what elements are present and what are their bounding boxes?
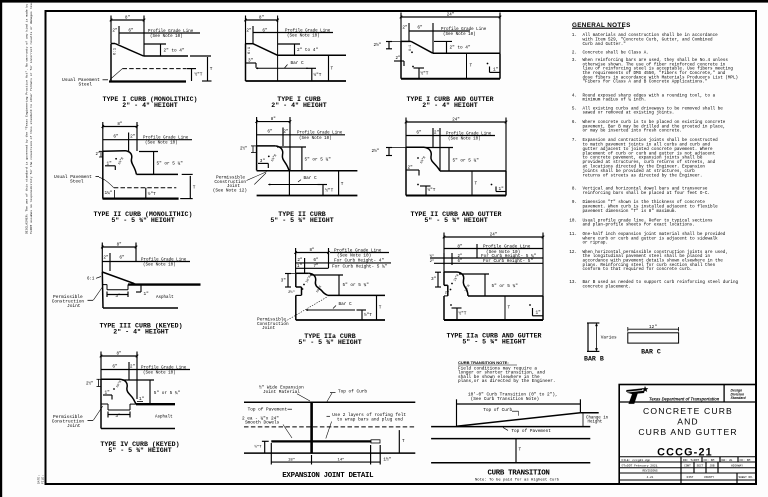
svg-text:AND: AND — [677, 417, 699, 427]
svg-text:TxDOT assumes no responsibilit: TxDOT assumes no responsibility for the … — [29, 0, 33, 234]
svg-text:Top of Pavement: Top of Pavement — [248, 408, 288, 413]
svg-text:FILE:: FILE: — [42, 475, 45, 484]
svg-text:Profile Grade Line: Profile Grade Line — [148, 29, 194, 34]
svg-text:3": 3" — [115, 414, 121, 419]
svg-text:2": 2" — [283, 130, 289, 135]
svg-text:3": 3" — [115, 294, 121, 299]
svg-text:CURB TRANSITION: CURB TRANSITION — [487, 469, 549, 477]
svg-text:6:1: 6:1 — [114, 47, 118, 55]
svg-text:2": 2" — [130, 135, 136, 140]
svg-text:Note: To be paid for as Highes: Note: To be paid for as Highest Curb — [475, 478, 560, 483]
svg-text:2" - 4" HEIGHT: 2" - 4" HEIGHT — [113, 329, 168, 336]
svg-text:9.: 9. — [572, 200, 577, 205]
svg-text:Steel: Steel — [79, 81, 93, 87]
svg-text:Top of Curb: Top of Curb — [483, 408, 512, 413]
svg-text:CONCRETE CURB: CONCRETE CURB — [643, 406, 733, 416]
svg-text:8": 8" — [125, 16, 130, 21]
TxDOT logo — [626, 386, 720, 404]
svg-text:Joint: Joint — [67, 423, 81, 429]
svg-text:2": 2" — [458, 254, 463, 259]
svg-text:T: T — [210, 67, 213, 72]
svg-text:13.: 13. — [569, 280, 577, 285]
svg-text:5" - 5 ¾" HEIGHT: 5" - 5 ¾" HEIGHT — [424, 217, 487, 224]
svg-text:5" or 5 ¾": 5" or 5 ¾" — [157, 162, 184, 167]
detail: TYPE IIa CURB AND GUTTER — [430, 233, 545, 321]
svg-text:24": 24" — [452, 118, 460, 123]
svg-text:Texas Department of Transporta: Texas Department of Transportation — [649, 397, 720, 402]
svg-text:6:1: 6:1 — [248, 46, 252, 54]
svg-text:Profile Grade Line: Profile Grade Line — [141, 257, 187, 262]
svg-text:Profile Grade Line: Profile Grade Line — [141, 365, 187, 370]
svg-text:Change in: Change in — [586, 415, 609, 420]
svg-text:2½": 2½" — [288, 290, 295, 295]
svg-text:12": 12" — [649, 325, 657, 330]
svg-text:(See Note 10): (See Note 10) — [143, 371, 176, 376]
svg-text:COUNTY: COUNTY — [704, 476, 714, 479]
svg-text:DATE:: DATE: — [38, 475, 41, 484]
svg-text:5.: 5. — [572, 106, 577, 111]
svg-text:2": 2" — [96, 152, 101, 157]
svg-text:24": 24" — [447, 13, 455, 18]
svg-text:5" or 5 ¾": 5" or 5 ¾" — [343, 283, 370, 288]
svg-text:For Curb Height- 4": For Curb Height- 4" — [334, 259, 384, 264]
svg-text:2½": 2½" — [374, 43, 382, 48]
svg-text:8": 8" — [117, 122, 122, 127]
title: TYPE I CURB (MONOLITHIC) — [103, 96, 198, 109]
svg-text:6": 6" — [416, 130, 422, 135]
svg-text:Profile Grade Line: Profile Grade Line — [441, 27, 487, 32]
svg-text:6": 6" — [267, 130, 273, 135]
svg-text:For Curb Height- 5": For Curb Height- 5" — [483, 259, 533, 264]
svg-text:5" - 5 ¾" HEIGHT: 5" - 5 ¾" HEIGHT — [462, 339, 525, 346]
svg-text:2½": 2½" — [372, 149, 380, 154]
svg-text:5" - 5 ¾" HEIGHT: 5" - 5 ¾" HEIGHT — [111, 217, 174, 224]
svg-text:½"T: ½"T — [421, 72, 429, 77]
detail: TYPE IV CURB (KEYED) — [52, 352, 190, 430]
svg-text:8": 8" — [310, 248, 315, 253]
svg-text:2": 2" — [396, 56, 401, 61]
svg-text:Bar C: Bar C — [291, 61, 305, 66]
date/file rotated text (bottom-left margin) — [38, 475, 45, 484]
svg-text:BAR C: BAR C — [641, 349, 661, 356]
svg-text:CURB AND GUTTER: CURB AND GUTTER — [638, 427, 737, 437]
svg-text:REVISIONS: REVISIONS — [642, 470, 657, 473]
svg-text:CONT: CONT — [684, 465, 691, 468]
svg-text:Curb and Gutter.": Curb and Gutter." — [583, 42, 626, 47]
disclaimer rotated text (left margin) — [25, 0, 33, 234]
svg-text:Top of Pavement: Top of Pavement — [511, 429, 551, 434]
svg-text:(See Note 10): (See Note 10) — [143, 263, 176, 268]
svg-text:2½": 2½" — [240, 147, 247, 152]
svg-text:8": 8" — [271, 117, 276, 122]
detail: TYPE III CURB (KEYED) — [52, 243, 201, 310]
general notes text — [569, 33, 738, 289]
title: TYPE III CURB (KEYED) — [99, 323, 182, 336]
svg-text:DN: TxDOT: DN: TxDOT — [683, 459, 699, 462]
general notes heading — [572, 22, 631, 29]
svg-text:©TxDOT February 2021: ©TxDOT February 2021 — [622, 464, 658, 468]
svg-text:2" to 4": 2" to 4" — [297, 48, 318, 53]
design division standard cell — [731, 389, 747, 401]
svg-text:to wrap bars and plug end: to wrap bars and plug end — [337, 417, 403, 422]
svg-text:T: T — [519, 448, 522, 453]
svg-text:T: T — [379, 306, 382, 311]
svg-text:½"T: ½"T — [314, 73, 322, 78]
svg-text:Smooth Dowels: Smooth Dowels — [245, 421, 280, 426]
svg-text:2½": 2½" — [86, 382, 93, 387]
title: TYPE IIa CURB AND GUTTER — [447, 333, 542, 346]
svg-text:conform to that required for c: conform to that required for concrete cu… — [583, 267, 693, 272]
svg-text:Profile Grade Line: Profile Grade Line — [297, 131, 343, 136]
svg-text:18": 18" — [288, 458, 295, 463]
svg-text:5" or 5 ¾": 5" or 5 ¾" — [154, 391, 181, 396]
svg-text:2": 2" — [434, 130, 440, 135]
title: TYPE I CURB AND GUTTER — [406, 96, 493, 109]
svg-text:2" - 4" HEIGHT: 2" - 4" HEIGHT — [122, 102, 177, 109]
svg-text:6:1: 6:1 — [87, 278, 95, 282]
svg-text:6:1: 6:1 — [409, 45, 413, 51]
title: CURB TRANSITION — [475, 469, 560, 482]
detail: TYPE I CURB — [244, 16, 346, 82]
svg-text:FILE: cccg21.dgn: FILE: cccg21.dgn — [622, 458, 651, 462]
svg-text:Steel: Steel — [70, 179, 84, 185]
svg-text:HIGHWAY: HIGHWAY — [731, 465, 743, 468]
svg-text:1": 1" — [493, 68, 499, 73]
svg-text:T: T — [193, 186, 196, 191]
svg-text:sawed or removed at existing j: sawed or removed at existing joints. — [583, 111, 675, 116]
svg-text:5" - 5 ¾" HEIGHT: 5" - 5 ¾" HEIGHT — [108, 447, 171, 454]
svg-text:Joint: Joint — [67, 303, 81, 309]
svg-text:2": 2" — [130, 364, 136, 369]
svg-text:1": 1" — [499, 187, 505, 192]
svg-text:T: T — [508, 306, 511, 311]
svg-text:2" - 4" HEIGHT: 2" - 4" HEIGHT — [271, 102, 326, 109]
svg-text:(See Note 10): (See Note 10) — [299, 136, 332, 141]
svg-text:3": 3" — [281, 279, 287, 284]
svg-text:For Curb Height- 5 ¾": For Curb Height- 5 ¾" — [481, 254, 537, 259]
svg-text:Joint: Joint — [262, 326, 276, 331]
title block outer frame — [619, 385, 756, 485]
detail: TYPE II CURB AND GUTTER — [372, 118, 508, 196]
svg-text:Top of Curb: Top of Curb — [338, 390, 367, 395]
svg-text:5" - 5 ¾" HEIGHT: 5" - 5 ¾" HEIGHT — [270, 217, 333, 224]
svg-text:(See Note 10): (See Note 10) — [287, 34, 320, 39]
svg-text:For Curb Height- 5 ¾": For Curb Height- 5 ¾" — [332, 264, 388, 269]
detail: BAR B — [584, 323, 617, 363]
svg-text:1.: 1. — [572, 33, 577, 38]
svg-text:Bar C: Bar C — [304, 176, 318, 181]
svg-text:T: T — [470, 64, 473, 69]
title: TYPE IIa CURB — [298, 333, 361, 346]
detail: BAR C — [628, 325, 679, 356]
title: TYPE II CURB — [270, 211, 333, 224]
svg-text:2" to 4": 2" to 4" — [164, 49, 185, 54]
svg-text:½"T: ½"T — [148, 192, 156, 197]
svg-text:(See Note 12): (See Note 12) — [213, 188, 247, 193]
svg-text:(See Note 10): (See Note 10) — [150, 34, 183, 39]
svg-text:or riprap.: or riprap. — [583, 241, 609, 246]
detail: EXPANSION JOINT DETAIL — [242, 386, 415, 465]
svg-text:½"T: ½"T — [364, 313, 372, 318]
svg-text:Asphalt: Asphalt — [155, 415, 173, 420]
svg-text:4-21: 4-21 — [647, 476, 654, 479]
svg-text:3.: 3. — [572, 58, 577, 63]
svg-text:6": 6" — [417, 25, 423, 30]
svg-text:14": 14" — [337, 458, 344, 463]
svg-text:CURB TRANSITION NOTE:: CURB TRANSITION NOTE: — [458, 360, 509, 365]
svg-text:(See Note 10): (See Note 10) — [145, 141, 178, 146]
svg-text:(See Note 10): (See Note 10) — [448, 137, 481, 142]
svg-text:Profile Grade Line: Profile Grade Line — [446, 131, 492, 136]
svg-text:1½": 1½" — [383, 458, 391, 463]
svg-text:10.: 10. — [569, 218, 577, 223]
svg-text:CK: KM: CK: KM — [704, 459, 715, 462]
svg-text:8": 8" — [259, 16, 264, 21]
svg-text:Concrete shall be Class A.: Concrete shall be Class A. — [583, 51, 649, 56]
svg-text:Joint Material: Joint Material — [263, 390, 300, 395]
svg-text:Varies: Varies — [601, 336, 617, 341]
svg-text:½"T: ½"T — [428, 188, 436, 193]
svg-text:DIST: DIST — [687, 476, 694, 479]
svg-text:1": 1" — [144, 292, 150, 297]
svg-text:SECT: SECT — [697, 465, 704, 468]
svg-text:plans,or as directed by the En: plans,or as directed by the Engineer. — [458, 379, 556, 384]
svg-text:(See Note 10): (See Note 10) — [443, 32, 476, 37]
svg-text:6": 6" — [119, 255, 125, 260]
svg-text:and plan-profile sheets for ex: and plan-profile sheets for exact locati… — [583, 223, 695, 228]
svg-text:returns of streets as directed: returns of streets as directed by the En… — [583, 173, 703, 178]
svg-text:Profile Grade Line: Profile Grade Line — [334, 248, 382, 253]
svg-text:12.: 12. — [569, 250, 577, 255]
svg-text:4.: 4. — [572, 93, 577, 98]
detail: TYPE IIa CURB — [257, 248, 391, 331]
detail: CURB TRANSITION — [431, 360, 609, 463]
svg-text:reinforcing bars shall be plac: reinforcing bars shall be placed at four… — [583, 191, 711, 196]
svg-text:1¼": 1¼" — [105, 191, 113, 196]
svg-text:2": 2" — [430, 259, 435, 264]
title: TYPE II CURB (MONOLITHIC) — [94, 211, 193, 224]
svg-text:½"T: ½"T — [254, 445, 262, 450]
svg-text:11.: 11. — [569, 232, 577, 237]
svg-text:24": 24" — [490, 233, 498, 238]
detail: TYPE I CURB (MONOLITHIC) — [62, 16, 213, 88]
svg-text:pavement dimension "T" is 8" m: pavement dimension "T" is 8" maximum. — [583, 209, 677, 214]
svg-text:T: T — [402, 439, 405, 444]
svg-text:2": 2" — [103, 255, 109, 260]
svg-text:2" - 4" HEIGHT: 2" - 4" HEIGHT — [422, 102, 477, 109]
svg-text:Height: Height — [588, 420, 603, 425]
svg-text:T: T — [341, 182, 344, 187]
svg-text:CK: KM: CK: KM — [740, 459, 751, 462]
svg-text:Profile Grade Line: Profile Grade Line — [143, 136, 189, 141]
svg-text:6": 6" — [112, 364, 118, 369]
svg-text:2": 2" — [246, 28, 252, 33]
svg-text:Asphalt: Asphalt — [156, 295, 174, 300]
svg-text:2": 2" — [112, 28, 118, 33]
title: TYPE IV CURB (KEYED) — [100, 441, 179, 454]
svg-text:DW: JG: DW: JG — [722, 459, 733, 462]
detail: TYPE II CURB — [213, 117, 358, 196]
svg-text:"Fibers for Class A and B Conc: "Fibers for Class A and B Concrete Appli… — [583, 80, 708, 85]
detail: TYPE II CURB (MONOLITHIC) — [54, 122, 196, 199]
detail: TYPE I CURB AND GUTTER — [374, 13, 502, 79]
svg-text:8": 8" — [457, 244, 463, 249]
title: TYPE I CURB — [271, 96, 326, 109]
title: TYPE II CURB AND GUTTER — [410, 211, 501, 224]
svg-text:3": 3" — [431, 277, 437, 282]
svg-text:5" or 5 ¾": 5" or 5 ¾" — [305, 157, 332, 162]
sheet title text — [638, 406, 737, 459]
svg-text:2": 2" — [445, 290, 449, 295]
svg-text:BAR B: BAR B — [584, 356, 604, 363]
left scan edge strip — [0, 0, 2, 497]
svg-text:Bar C: Bar C — [339, 302, 353, 307]
svg-text:5" or 5 ¾": 5" or 5 ¾" — [453, 159, 480, 164]
top scan edge strip — [0, 0, 768, 3]
svg-text:1": 1" — [536, 311, 542, 316]
svg-text:or may be inserted into fresh: or may be inserted into fresh concrete. — [583, 129, 682, 134]
svg-text:2" to 4": 2" to 4" — [450, 46, 471, 51]
svg-text:T: T — [475, 182, 478, 187]
svg-text:6": 6" — [113, 135, 119, 140]
svg-text:8": 8" — [116, 352, 121, 357]
svg-text:½"T: ½"T — [195, 73, 203, 78]
svg-text:2": 2" — [402, 25, 408, 30]
svg-text:minimum radius of ¼ inch.: minimum radius of ¼ inch. — [583, 98, 647, 103]
svg-text:T: T — [331, 67, 334, 72]
svg-text:Profile Grade Line: Profile Grade Line — [285, 28, 331, 33]
svg-text:6": 6" — [458, 259, 463, 264]
svg-text:5" or 5 ¾": 5" or 5 ¾" — [492, 284, 519, 289]
svg-text:½"T: ½"T — [325, 189, 333, 194]
svg-text:Standard: Standard — [731, 396, 747, 400]
svg-text:concrete placement.: concrete placement. — [583, 284, 631, 289]
svg-text:2.: 2. — [572, 51, 577, 56]
svg-text:SHEET NO.: SHEET NO. — [738, 476, 753, 479]
svg-text:JOB: JOB — [709, 465, 714, 468]
svg-text:½"T: ½"T — [459, 312, 467, 317]
svg-text:7.: 7. — [572, 138, 577, 143]
svg-text:8.: 8. — [572, 187, 577, 192]
title: EXPANSION JOINT DETAIL — [282, 472, 374, 480]
svg-text:EXPANSION JOINT DETAIL: EXPANSION JOINT DETAIL — [282, 472, 374, 480]
title block bottom table — [619, 457, 756, 484]
svg-text:½": ½" — [430, 254, 435, 259]
svg-text:(See Curb Transition Note): (See Curb Transition Note) — [471, 397, 540, 402]
svg-text:5" - 5 ¾" HEIGHT: 5" - 5 ¾" HEIGHT — [298, 339, 361, 346]
svg-text:6.: 6. — [572, 120, 577, 125]
svg-text:8": 8" — [117, 243, 122, 248]
